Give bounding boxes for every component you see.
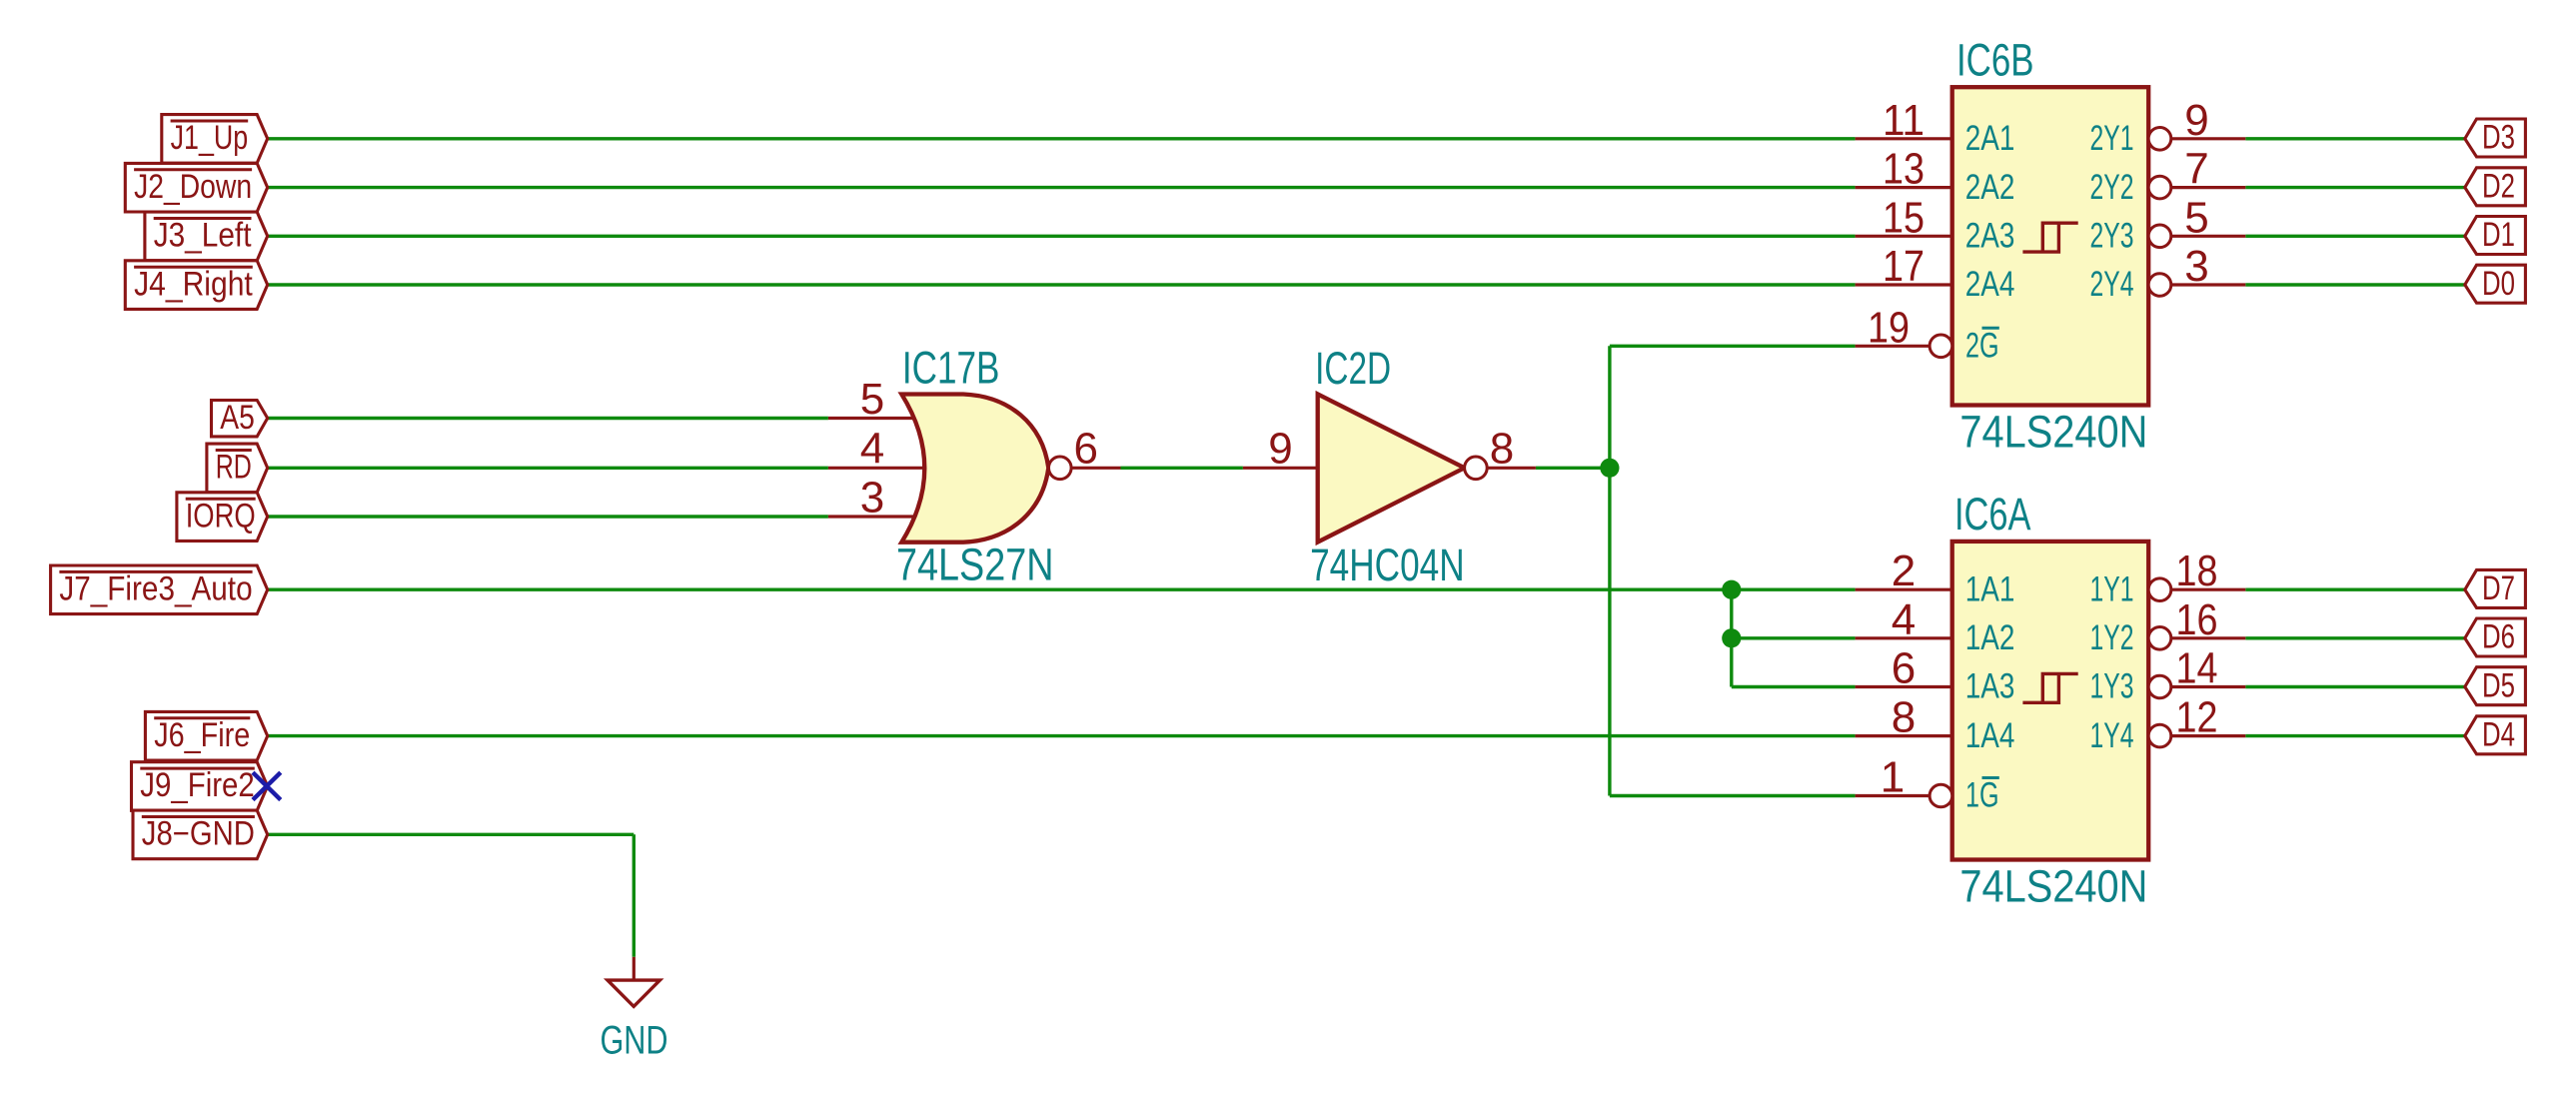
svg-text:1Y4: 1Y4 [2090,716,2134,755]
svg-text:18: 18 [2176,547,2218,595]
svg-text:IC17B: IC17B [902,342,1000,393]
svg-text:2G: 2G [1965,327,1999,366]
svg-text:9: 9 [1268,425,1292,474]
global label J1_Up [162,115,268,164]
global label J4_Right [125,261,267,310]
global label D3 [2465,119,2526,157]
svg-text:J9_Fire2: J9_Fire2 [140,766,255,804]
svg-text:4: 4 [1892,595,1916,644]
svg-text:6: 6 [1892,644,1916,693]
svg-text:IORQ: IORQ [186,497,256,535]
svg-text:74HC04N: 74HC04N [1310,540,1465,590]
junction inverter output node [1600,459,1619,478]
svg-text:2Y3: 2Y3 [2090,217,2134,256]
global label D2 [2465,167,2526,205]
svg-text:7: 7 [2184,145,2208,194]
svg-text:J1_Up: J1_Up [171,119,249,157]
global label J8-GND [133,810,268,859]
wire to D label [2245,283,2465,286]
wire to pin 19 2G [1610,345,1856,348]
svg-text:J4_Right: J4_Right [134,265,253,303]
svg-text:1G: 1G [1965,776,1999,815]
wire J8-GND horizontal [268,833,635,836]
svg-text:2A2: 2A2 [1965,168,2015,207]
svg-text:A5: A5 [220,399,255,437]
inverter output bubble [1465,457,1488,480]
ground symbol pin [633,957,636,980]
svg-text:4: 4 [860,425,884,474]
global label IORQ [177,493,268,542]
wire to D label [2245,186,2465,189]
wire vertical enable bus [1608,346,1611,795]
svg-text:1Y2: 1Y2 [2090,618,2134,657]
svg-text:J8−GND: J8−GND [142,815,255,853]
buffer IC6A 74LS240N unit A pin stubs [1856,588,1952,591]
global label D6 [2465,618,2526,656]
svg-text:5: 5 [860,375,884,424]
svg-text:11: 11 [1883,96,1925,145]
svg-text:1A2: 1A2 [1965,618,2015,657]
svg-text:8: 8 [1892,693,1916,742]
wire J2_Down to 2A2 [268,186,1856,189]
svg-text:D5: D5 [2482,666,2515,704]
wire to pin 1 1G [1610,794,1856,797]
wire RD to gate pin 4 [268,467,828,470]
svg-text:D2: D2 [2482,167,2515,205]
global label RD [207,444,268,493]
wire IORQ to gate pin 3 [268,515,828,518]
global label J6_Fire [145,711,267,760]
global label D0 [2465,265,2526,303]
IC6B pin stubs [1856,137,1952,140]
wire inverter out to node [1536,467,1610,470]
svg-text:13: 13 [1883,145,1925,194]
svg-text:2A4: 2A4 [1965,265,2015,304]
wire J8-GND vertical [633,834,636,957]
ground symbol triangle [608,980,659,1006]
global label J9_Fire2 [132,762,268,811]
svg-text:16: 16 [2176,595,2218,644]
svg-text:IC2D: IC2D [1315,343,1391,394]
svg-text:2: 2 [1892,547,1916,595]
svg-text:74LS240N: 74LS240N [1959,860,2147,911]
global label J2_Down [125,163,267,212]
svg-text:GND: GND [601,1019,668,1063]
wire J1_Up to 2A1 [268,137,1856,140]
inverter IC2D body [1318,394,1465,542]
wire J6_Fire to 1A4 [268,734,1856,737]
svg-text:74LS240N: 74LS240N [1959,406,2147,457]
wire to D label [2245,137,2465,140]
svg-text:9: 9 [2184,96,2208,145]
svg-text:17: 17 [1883,242,1925,291]
wire to D label [2245,734,2465,737]
NOR gate IC17B body [901,395,1048,543]
svg-text:6: 6 [1073,425,1097,474]
wire to D label [2245,685,2465,688]
global label J3_Left [145,212,268,261]
svg-text:1: 1 [1881,753,1905,802]
global label D4 [2465,715,2526,753]
svg-text:74LS27N: 74LS27N [896,540,1054,590]
no-connect X on J9_Fire2 [253,772,281,799]
IC6A schmitt mark [2022,673,2077,702]
svg-text:J3_Left: J3_Left [154,217,252,255]
svg-text:5: 5 [2184,193,2208,242]
wire J3_Left to 2A3 [268,235,1856,238]
wire J7_Fire3_Auto to 1A1 [268,588,1856,591]
svg-text:IC6A: IC6A [1954,489,2031,540]
svg-text:1A4: 1A4 [1965,716,2015,755]
IC6A body [1952,542,2149,860]
svg-text:1A1: 1A1 [1965,569,2015,608]
IC6B body [1952,87,2149,405]
wire to D label [2245,636,2465,639]
wire A5 to gate pin 5 [268,417,828,420]
svg-text:1Y1: 1Y1 [2090,569,2134,608]
svg-text:3: 3 [860,473,884,522]
IC6B input bubbles [1930,335,1952,358]
svg-text:2Y1: 2Y1 [2090,119,2134,158]
wire to 1A3 [1732,685,1856,688]
wire to D label [2245,588,2465,591]
inverter IC2D 74HC04N pin stubs [1243,467,1318,470]
global label J7_Fire3_Auto [51,565,268,614]
svg-text:2A3: 2A3 [1965,217,2015,256]
wire J4_Right to 2A4 [268,283,1856,286]
svg-text:IC6B: IC6B [1956,34,2034,85]
svg-text:2Y4: 2Y4 [2090,265,2134,304]
wire to 1A2 [1732,636,1856,639]
svg-text:15: 15 [1883,193,1925,242]
junction 1A2 tie [1722,628,1741,647]
svg-text:1A3: 1A3 [1965,667,2015,706]
svg-text:19: 19 [1868,303,1910,352]
svg-text:D1: D1 [2482,216,2515,254]
wire to D label [2245,235,2465,238]
svg-text:J6_Fire: J6_Fire [154,716,250,754]
svg-text:2Y2: 2Y2 [2090,168,2134,207]
svg-text:D0: D0 [2482,265,2515,303]
svg-text:2A1: 2A1 [1965,119,2015,158]
svg-text:J7_Fire3_Auto: J7_Fire3_Auto [59,570,252,608]
svg-text:D4: D4 [2482,715,2515,753]
wire gate out to inverter in [1121,467,1243,470]
NOR gate IC17B 74LS27N pin stubs [828,417,914,420]
NOR gate output bubble [1049,457,1072,480]
svg-text:D6: D6 [2482,618,2515,656]
svg-text:RD: RD [216,449,252,487]
svg-text:1Y3: 1Y3 [2090,667,2134,706]
IC6B schmitt mark [2022,223,2077,252]
IC6A input bubbles [1930,784,1952,807]
svg-text:3: 3 [2184,242,2208,291]
svg-text:D7: D7 [2482,569,2515,607]
global label D7 [2465,569,2526,607]
svg-text:12: 12 [2176,693,2218,742]
global label A5 [212,399,268,437]
svg-text:J2_Down: J2_Down [134,168,252,206]
svg-text:14: 14 [2176,644,2218,693]
svg-text:8: 8 [1490,425,1514,474]
svg-text:D3: D3 [2482,119,2515,157]
global label D5 [2465,666,2526,704]
junction 1A1 tie [1722,580,1741,599]
wire vertical 1A tie [1730,589,1733,686]
global label D1 [2465,216,2526,254]
